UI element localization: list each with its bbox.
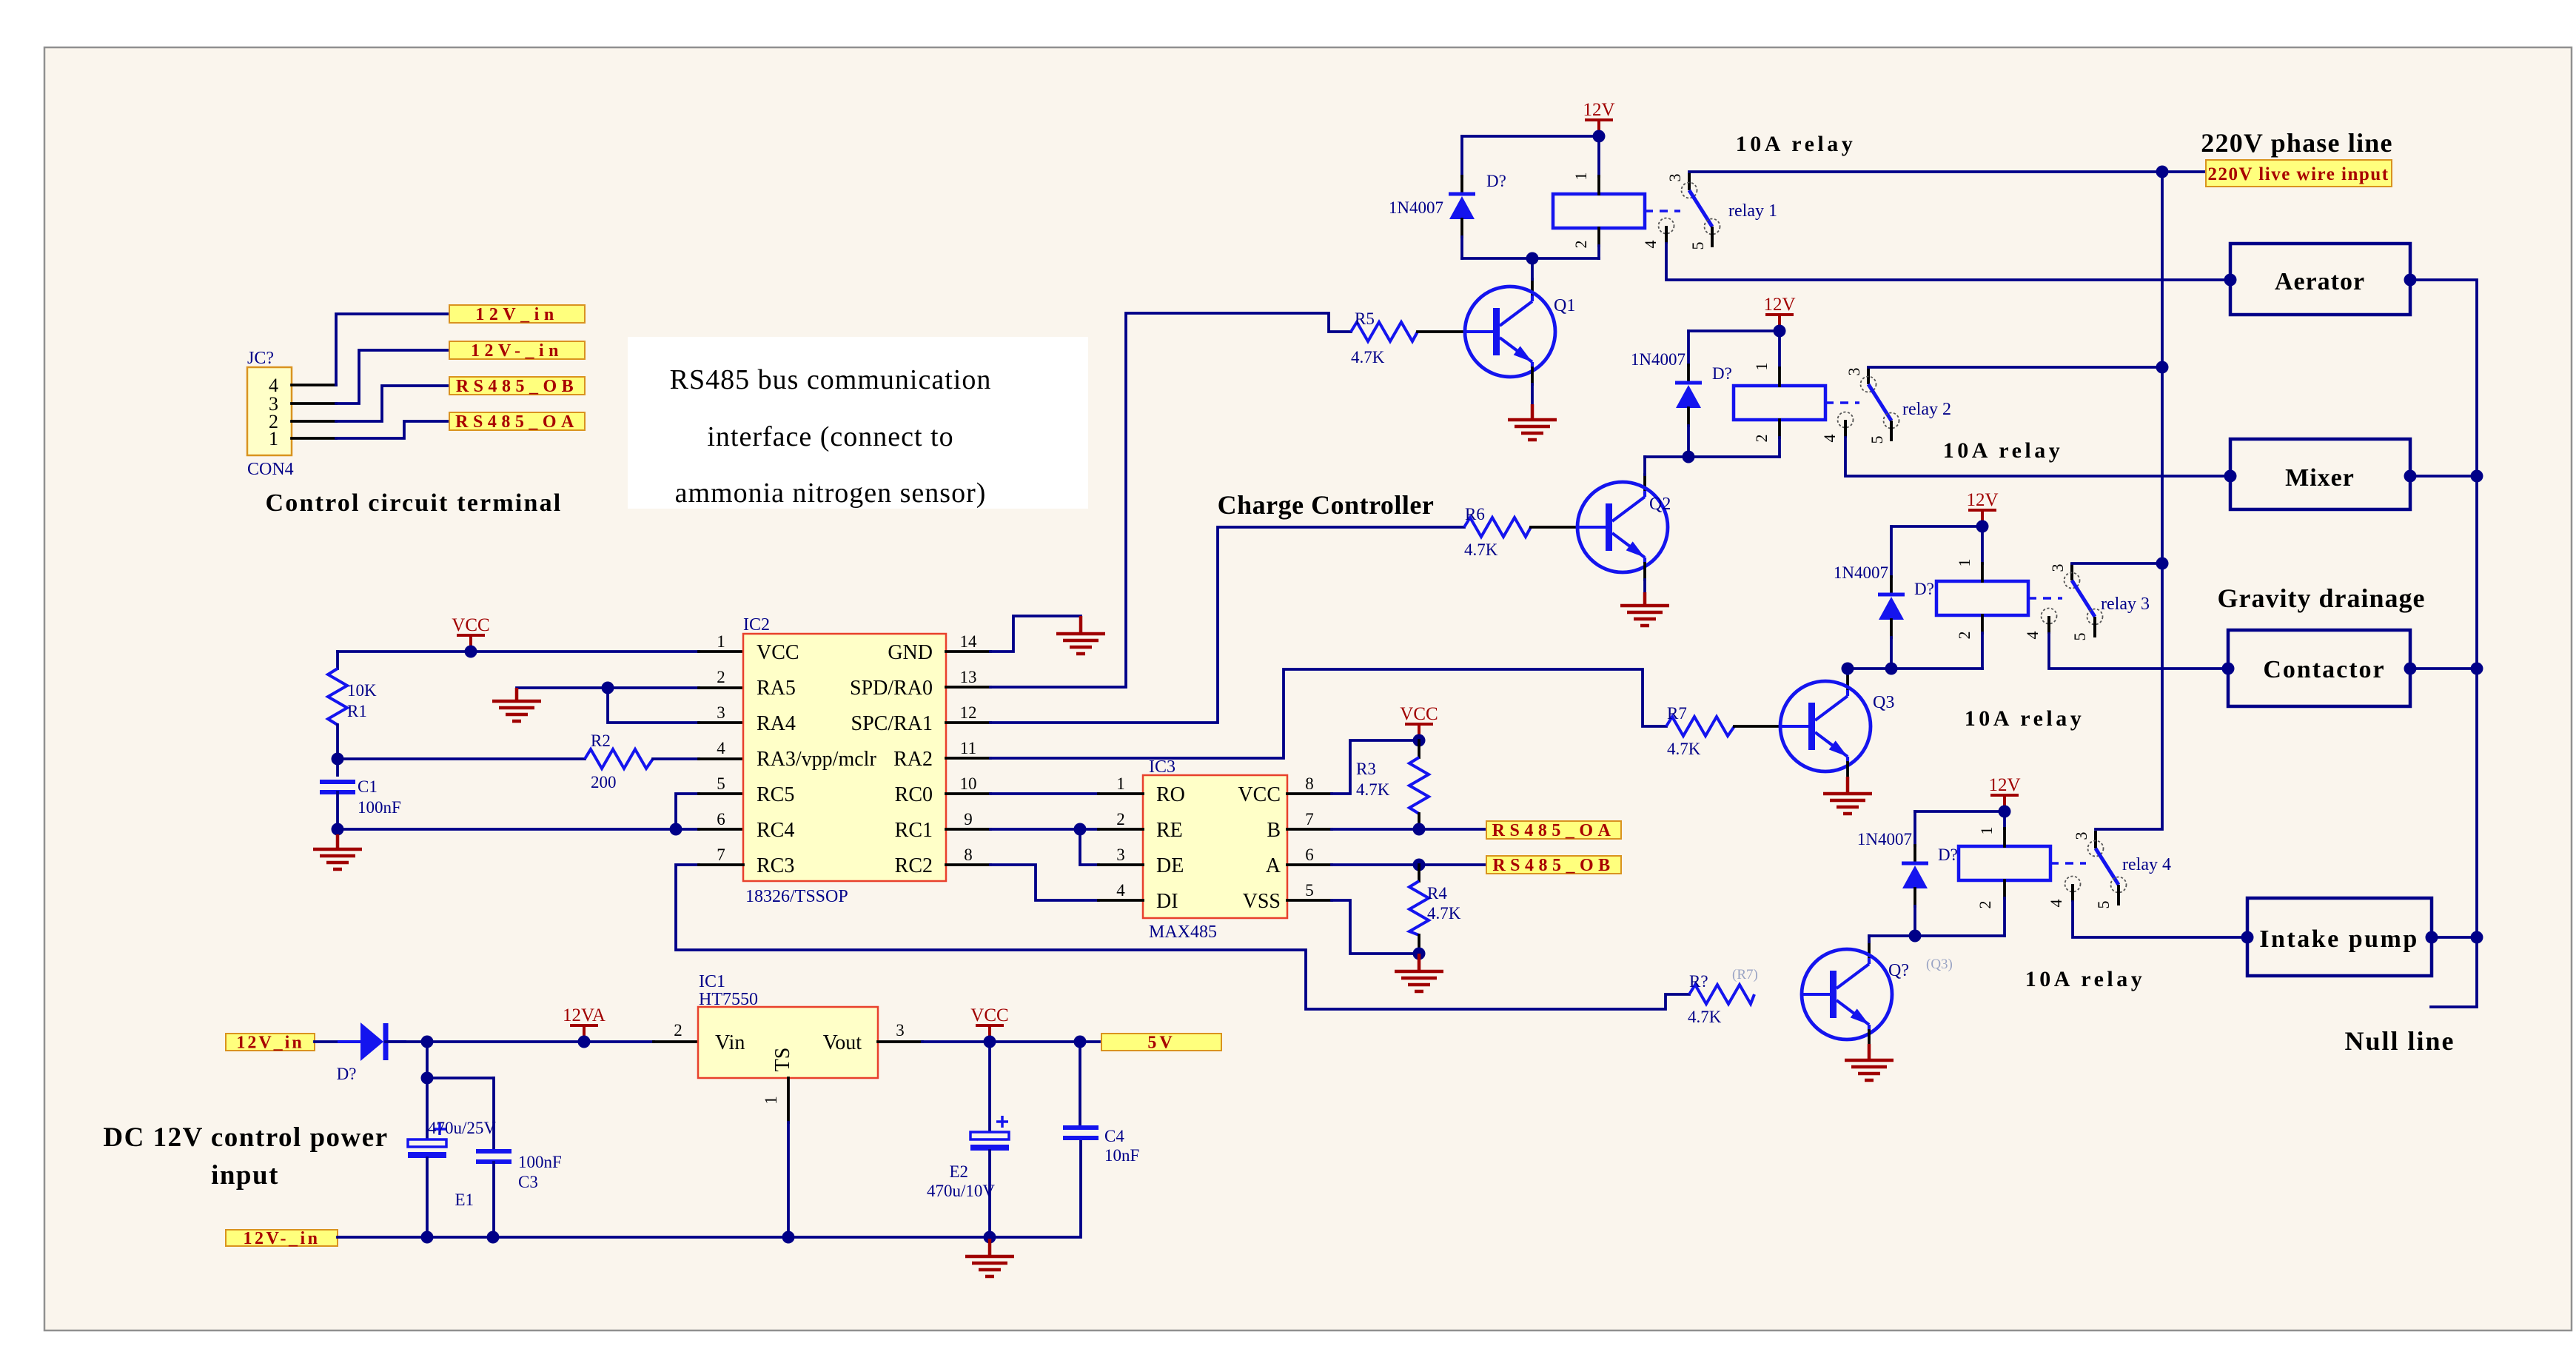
wire VCC to R3 top: [1332, 740, 1419, 794]
svg-text:1: 1: [1977, 827, 1996, 835]
svg-text:Q2: Q2: [1649, 495, 1671, 514]
svg-text:interface (connect to: interface (connect to: [707, 421, 953, 452]
svg-text:9: 9: [964, 810, 973, 828]
svg-text:8: 8: [964, 846, 973, 864]
node phase relay3 tap: [2156, 558, 2169, 570]
svg-text:3: 3: [2048, 564, 2067, 572]
wire pin2 to RS485_OB: [336, 386, 449, 421]
wire RC5 jog: [676, 794, 699, 829]
svg-text:DC 12V control power: DC 12V control power: [103, 1122, 388, 1153]
IC3 pin 6 stub: [1287, 863, 1332, 866]
svg-text:11: 11: [960, 739, 976, 757]
relay3 contact: [2042, 563, 2103, 637]
pin 2 stub: [292, 420, 336, 423]
ground on RA5 net: [492, 688, 541, 721]
node Q2 collector junction: [1683, 451, 1695, 463]
Q1 base lead: [1418, 330, 1465, 333]
svg-text:3: 3: [896, 1021, 905, 1039]
svg-text:VCC: VCC: [970, 1005, 1008, 1025]
IC2 pin 3 stub: [699, 721, 743, 724]
Q1 emitter lead: [1531, 368, 1534, 384]
net label 12V_in power: [226, 1034, 315, 1053]
relay coil K2: [1734, 386, 1825, 420]
net label RS485_OB right: [1486, 856, 1621, 875]
relay2 coil pin 2: [1778, 420, 1781, 438]
svg-text:JC?: JC?: [247, 349, 274, 368]
load box Intake pump: [2247, 898, 2432, 976]
wire D? to IC1 Vin: [386, 1040, 654, 1043]
svg-text:2: 2: [1955, 632, 1973, 640]
power VCC (IC2 rail): [452, 615, 489, 652]
IC1 pin 2 stub: [654, 1040, 698, 1043]
node phase relay2 tap: [2156, 361, 2169, 374]
relay3 coil pin 2: [1981, 615, 1984, 633]
connector JC? CON4: [247, 349, 294, 479]
svg-text:R7: R7: [1667, 704, 1687, 723]
IC3 pin 1 stub: [1099, 792, 1143, 795]
svg-text:D?: D?: [337, 1065, 357, 1083]
svg-text:1: 1: [717, 632, 725, 651]
node B/R3 junction: [1413, 823, 1426, 836]
svg-text:4: 4: [717, 739, 725, 757]
svg-text:Gravity drainage: Gravity drainage: [2218, 583, 2426, 613]
wire 12V to D? relay4: [1915, 810, 2005, 813]
IC U3 MAX485 (IC3): [1116, 757, 1314, 942]
diode D? 1N4007 relay4: [1857, 811, 1958, 936]
svg-text:Mixer: Mixer: [2285, 464, 2355, 492]
svg-text:10K: 10K: [347, 681, 377, 700]
node bus Contactor: [2471, 663, 2483, 675]
svg-text:6: 6: [717, 810, 725, 828]
svg-text:12V: 12V: [1583, 100, 1614, 120]
node Aerator right: [2404, 274, 2417, 287]
relay3 coil pin 1: [1981, 526, 1984, 563]
svg-text:RC2: RC2: [895, 854, 933, 877]
svg-text:R2: R2: [591, 731, 611, 750]
svg-text:1N4007: 1N4007: [1834, 563, 1888, 582]
IC1 pin 3 stub: [878, 1040, 922, 1043]
relay2 coil pin 1: [1778, 331, 1781, 368]
node bus Intake pump: [2471, 931, 2483, 944]
node RC4/RC5 junction: [670, 823, 682, 836]
svg-text:Q1: Q1: [1554, 296, 1575, 315]
svg-text:470u/25V: 470u/25V: [428, 1119, 496, 1137]
svg-text:4: 4: [1820, 435, 1839, 443]
svg-text:HT7550: HT7550: [699, 990, 758, 1009]
svg-text:1: 1: [1752, 363, 1771, 371]
wire RC4 net: [338, 828, 699, 831]
wire Vout to 5V: [922, 1040, 1099, 1043]
wire Intake pump to bus: [2432, 936, 2477, 939]
relay coil K1: [1553, 194, 1645, 228]
svg-text:220V phase line: 220V phase line: [2201, 128, 2392, 158]
resistor R6 4.7K: [1464, 505, 1531, 559]
node RA5/RA4 junction: [602, 682, 614, 694]
IC3 pin 5 stub: [1287, 899, 1332, 902]
node VCC rail dot: [465, 646, 477, 658]
wire to live input label: [2162, 170, 2206, 173]
wire null line bus: [2410, 280, 2477, 1007]
svg-text:12V_in: 12V_in: [475, 305, 558, 324]
ground below C1: [336, 829, 339, 834]
svg-text:CON4: CON4: [247, 460, 294, 479]
svg-text:RS485_OA: RS485_OA: [1492, 821, 1616, 840]
wire pin11 to R7: [990, 669, 1666, 758]
Q3 collector lead: [1846, 674, 1849, 690]
transistor Q3: [1780, 681, 1871, 771]
svg-text:10: 10: [960, 774, 977, 793]
wire tie RE-DE: [1080, 829, 1099, 865]
node VCC 5V dot: [984, 1036, 996, 1048]
node R1/R2/C1 junction: [332, 753, 344, 766]
relay1 coil pin 2: [1597, 228, 1600, 246]
svg-text:RC0: RC0: [895, 783, 933, 806]
svg-text:(R7): (R7): [1732, 967, 1758, 982]
svg-text:3: 3: [1116, 846, 1125, 864]
svg-text:RA3/vpp/mclr: RA3/vpp/mclr: [757, 748, 876, 771]
power 12V relay1: [1583, 100, 1614, 136]
IC2 pin 8 stub: [946, 863, 990, 866]
node Q3 collector junction: [1842, 663, 1854, 675]
wire 12V to D? relay1: [1462, 135, 1599, 138]
wire RA4 tie: [608, 688, 699, 723]
wire relay1 common to phase line: [1689, 170, 2162, 173]
svg-text:12V: 12V: [1966, 490, 1998, 510]
svg-text:RS485_OB: RS485_OB: [456, 377, 578, 396]
svg-text:1: 1: [1955, 559, 1973, 567]
IC2 pin 10 stub: [946, 792, 990, 795]
svg-text:5: 5: [1688, 242, 1707, 250]
node Q1 collector junction: [1526, 252, 1539, 265]
svg-text:Control circuit terminal: Control circuit terminal: [266, 489, 563, 517]
svg-text:C1: C1: [358, 777, 378, 796]
svg-text:VCC: VCC: [757, 641, 799, 664]
IC3 pin 8 stub: [1287, 792, 1332, 795]
ground Q1: [1508, 404, 1557, 440]
IC2 pin 2 stub: [699, 686, 743, 689]
svg-text:RE: RE: [1156, 819, 1183, 842]
Q4 collector lead: [1868, 942, 1871, 958]
svg-text:12: 12: [960, 703, 977, 722]
ground IC2 pin14: [1056, 616, 1105, 654]
IC2 pin 7 stub: [699, 863, 743, 866]
svg-text:RS485_OA: RS485_OA: [455, 412, 579, 432]
svg-text:R6: R6: [1465, 505, 1485, 523]
wire pin13 to R5: [990, 313, 1351, 687]
svg-text:12V-_in: 12V-_in: [243, 1229, 320, 1248]
IC3 pin 2 stub: [1099, 828, 1143, 831]
relay4 coil pin 1: [2003, 811, 2006, 828]
IC U2 18326/TSSOP (IC2): [717, 615, 977, 906]
svg-text:4: 4: [2047, 900, 2065, 908]
resistor R? 4.7K: [1688, 967, 1758, 1026]
svg-text:RA4: RA4: [757, 712, 796, 735]
capacitor C1 100nF: [320, 759, 401, 829]
IC3 pin 4 stub: [1099, 899, 1143, 902]
node D? relay4 junction: [1909, 930, 1922, 943]
svg-text:3: 3: [2072, 832, 2090, 840]
Q2 collector lead: [1643, 475, 1646, 491]
node C4 top dot: [1074, 1036, 1087, 1048]
svg-text:18326/TSSOP: 18326/TSSOP: [745, 887, 848, 906]
resistor R1 10K: [328, 652, 377, 759]
svg-text:2: 2: [1116, 810, 1125, 828]
wire RC3 to R?: [676, 865, 1689, 1009]
svg-text:1: 1: [762, 1096, 780, 1105]
svg-text:VCC: VCC: [1400, 704, 1438, 724]
svg-text:relay 4: relay 4: [2122, 855, 2171, 874]
node rail IC1 pin1: [782, 1231, 795, 1244]
svg-text:12V: 12V: [1988, 775, 2020, 795]
wire ground rail: [338, 1140, 1081, 1237]
node 12V relay4 dot: [1999, 806, 2011, 818]
node bus Mixer: [2471, 470, 2483, 483]
IC2 pin 12 stub: [946, 721, 990, 724]
diode D? power input: [338, 1022, 406, 1061]
resistor R4 4.7K: [1409, 865, 1461, 954]
svg-text:ammonia nitrogen sensor): ammonia nitrogen sensor): [675, 478, 987, 509]
relay3 actuation dashes: [2028, 597, 2062, 600]
svg-text:13: 13: [960, 668, 977, 686]
diode D? 1N4007 relay2: [1631, 331, 1732, 457]
svg-text:RC1: RC1: [895, 819, 933, 842]
svg-text:4.7K: 4.7K: [1667, 740, 1701, 758]
svg-text:7: 7: [717, 846, 725, 864]
svg-text:D?: D?: [1712, 364, 1732, 383]
load box Mixer: [2230, 439, 2410, 509]
svg-text:4.7K: 4.7K: [1427, 904, 1461, 923]
svg-text:RC4: RC4: [757, 819, 794, 842]
ground Q4: [1845, 1044, 1894, 1080]
IC2 pin 1 stub: [699, 650, 743, 653]
svg-text:14: 14: [960, 632, 978, 651]
svg-text:10A relay: 10A relay: [1943, 438, 2063, 463]
svg-text:5: 5: [1868, 436, 1886, 444]
net label 12V-_in: [226, 1229, 338, 1248]
node 12VA dot: [578, 1036, 591, 1048]
wire pin1 to RS485_OA: [336, 421, 449, 438]
power 12V relay4: [1988, 775, 2020, 811]
node VCC/R3 junction: [1413, 734, 1426, 747]
svg-text:SPC/RA1: SPC/RA1: [851, 712, 933, 735]
caption DC 12V control power input: [103, 1122, 388, 1191]
svg-text:5: 5: [2070, 633, 2089, 641]
svg-text:5: 5: [2094, 901, 2113, 909]
resistor R7 4.7K: [1666, 704, 1734, 758]
relay1 coil pin 1: [1597, 136, 1600, 176]
svg-text:Null line: Null line: [2344, 1026, 2455, 1056]
node Contactor left: [2222, 663, 2235, 675]
svg-text:200: 200: [591, 773, 617, 791]
svg-text:IC1: IC1: [699, 972, 725, 991]
node 12V relay2 dot: [1774, 325, 1786, 338]
IC2 pin 13 stub: [946, 686, 990, 689]
diode D? 1N4007 relay1: [1389, 136, 1506, 258]
svg-text:VCC: VCC: [1238, 783, 1281, 806]
node Mixer left: [2224, 470, 2237, 483]
svg-text:1: 1: [1572, 173, 1590, 181]
wire relay1 coil return: [1462, 257, 1599, 260]
ground Q3: [1823, 777, 1872, 814]
svg-text:relay 2: relay 2: [1902, 400, 1951, 419]
svg-text:TS: TS: [771, 1048, 794, 1072]
wire relay4 coil return: [1869, 934, 2005, 937]
svg-text:3: 3: [1845, 368, 1863, 376]
svg-text:Vin: Vin: [715, 1031, 745, 1054]
relay4 actuation dashes: [2050, 862, 2086, 865]
wire B to RS485_OA: [1332, 828, 1486, 831]
resistor R5 4.7K: [1351, 309, 1418, 366]
node D? relay3 junction: [1885, 663, 1898, 675]
ground rail: [965, 1239, 1014, 1276]
Q4 emitter lead: [1868, 1031, 1871, 1044]
net label RS485_OA: [449, 412, 585, 432]
relay4 coil pin 2: [2003, 880, 2006, 898]
resistor R2 200: [338, 731, 699, 791]
svg-text:1N4007: 1N4007: [1389, 198, 1443, 217]
svg-text:DE: DE: [1156, 854, 1184, 877]
wire VSS to ground: [1332, 900, 1419, 954]
svg-text:relay 3: relay 3: [2101, 595, 2150, 614]
node phase line top: [2156, 166, 2169, 178]
svg-text:Contactor: Contactor: [2263, 656, 2385, 683]
svg-text:470u/10V: 470u/10V: [927, 1182, 995, 1200]
svg-text:10A relay: 10A relay: [2025, 967, 2145, 991]
wire relay2 pin4 to Mixer: [1845, 438, 2230, 476]
relay1 contact: [1659, 173, 1720, 247]
svg-text:8: 8: [1305, 774, 1314, 793]
relay2 actuation dashes: [1825, 401, 1859, 404]
svg-text:5V: 5V: [1147, 1034, 1175, 1053]
svg-text:MAX485: MAX485: [1149, 923, 1217, 942]
svg-text:RS485 bus communication: RS485 bus communication: [670, 364, 992, 395]
ground Q2: [1620, 592, 1669, 626]
svg-text:R1: R1: [347, 702, 367, 720]
svg-text:100nF: 100nF: [358, 798, 401, 817]
wire RC1 to RE: [990, 828, 1099, 831]
svg-text:10nF: 10nF: [1104, 1146, 1139, 1165]
svg-text:100nF: 100nF: [518, 1153, 562, 1171]
relay coil K3: [1936, 581, 2028, 615]
svg-text:12V: 12V: [1763, 295, 1795, 315]
IC3 pin 7 stub: [1287, 828, 1332, 831]
svg-text:GND: GND: [888, 641, 933, 664]
svg-text:1N4007: 1N4007: [1631, 350, 1686, 369]
wire label to D?: [315, 1040, 359, 1043]
node E1 top junction: [421, 1036, 434, 1048]
svg-text:E1: E1: [455, 1191, 474, 1209]
svg-text:4.7K: 4.7K: [1356, 780, 1390, 799]
svg-text:C3: C3: [518, 1173, 538, 1191]
diode D? 1N4007 relay3: [1834, 526, 1934, 669]
wire A to RS485_OB: [1332, 863, 1486, 866]
svg-text:3: 3: [1666, 174, 1684, 182]
svg-text:2: 2: [717, 668, 725, 686]
svg-text:RA2: RA2: [893, 748, 933, 771]
power VCC (MAX485): [1400, 704, 1438, 740]
wire relay1 pin4 to Aerator: [1666, 244, 2230, 280]
svg-text:Charge Controller: Charge Controller: [1218, 490, 1435, 520]
IC2 pin 5 stub: [699, 792, 743, 795]
Q3 emitter lead: [1846, 763, 1849, 777]
wire relay3 pin4 to Contactor: [2049, 634, 2227, 669]
svg-text:2: 2: [1752, 435, 1771, 443]
node VSS/R4 junction: [1413, 948, 1426, 960]
svg-text:R4: R4: [1427, 884, 1447, 903]
power 12V relay2: [1763, 295, 1795, 331]
pin 3 stub: [292, 402, 336, 405]
svg-text:7: 7: [1305, 810, 1314, 828]
svg-text:12V-_in: 12V-_in: [471, 341, 563, 361]
node E1/C3 split: [421, 1072, 434, 1085]
node 12V relay1 dot: [1593, 130, 1606, 143]
relay coil K4: [1959, 846, 2050, 880]
svg-text:R5: R5: [1355, 309, 1375, 328]
wire VCC rail to IC2 pin1: [338, 650, 699, 653]
IC U1 HT7550 (IC1): [698, 972, 878, 1078]
svg-text:A: A: [1266, 854, 1281, 877]
node C1 bottom junction: [332, 823, 344, 836]
svg-text:Q?: Q?: [1888, 961, 1909, 980]
svg-text:3: 3: [717, 703, 725, 722]
svg-text:2: 2: [674, 1021, 682, 1039]
node Aerator left: [2224, 274, 2237, 287]
svg-text:12VA: 12VA: [563, 1005, 606, 1025]
node 12V relay3 dot: [1976, 520, 1989, 533]
svg-text:4: 4: [1116, 881, 1125, 900]
Q2 emitter lead: [1643, 563, 1646, 580]
wire 12V to D? relay3: [1891, 525, 1982, 528]
net label 12V_in: [449, 305, 585, 324]
node rail E2: [984, 1231, 996, 1244]
power 12VA: [563, 1005, 606, 1042]
resistor R3 4.7K: [1356, 740, 1429, 829]
capacitor C4 10nF: [1063, 1042, 1139, 1165]
net label RS485_OA right: [1486, 821, 1621, 840]
svg-text:IC2: IC2: [743, 615, 770, 635]
svg-text:Q3: Q3: [1873, 693, 1894, 712]
svg-text:2: 2: [1572, 241, 1590, 249]
svg-text:Aerator: Aerator: [2275, 268, 2365, 295]
wire relay2 common to phase: [1868, 366, 2162, 369]
wire pin14 to ground: [990, 616, 1081, 652]
svg-text:5: 5: [717, 774, 725, 793]
svg-text:RS485_OB: RS485_OB: [1492, 856, 1614, 875]
node rail E1: [421, 1231, 434, 1244]
node rail C3: [487, 1231, 500, 1244]
relay2 contact: [1838, 366, 1899, 441]
svg-text:10A relay: 10A relay: [1965, 706, 2084, 731]
node Contactor right: [2404, 663, 2417, 675]
net label 12V-_in: [449, 341, 585, 361]
svg-text:RA5: RA5: [757, 677, 796, 700]
Q1 collector lead: [1531, 279, 1534, 295]
svg-text:1: 1: [269, 428, 278, 449]
svg-text:D?: D?: [1486, 172, 1506, 190]
svg-text:2: 2: [1976, 901, 1994, 909]
svg-text:1N4007: 1N4007: [1857, 830, 1912, 848]
wire IC1 TS to rail: [787, 1122, 790, 1237]
net label RS485_OB: [449, 377, 585, 396]
wire pin3 to 12V-_in: [336, 350, 449, 404]
node Intake pump left: [2241, 931, 2254, 944]
wire 12V to D? relay2: [1688, 329, 1780, 332]
IC2 pin 4 stub: [699, 757, 743, 760]
wire Contactor to bus: [2410, 667, 2477, 670]
svg-text:B: B: [1267, 819, 1281, 842]
svg-text:220V live wire input: 220V live wire input: [2207, 164, 2389, 184]
wire pin4 to 12V_in: [336, 314, 449, 385]
